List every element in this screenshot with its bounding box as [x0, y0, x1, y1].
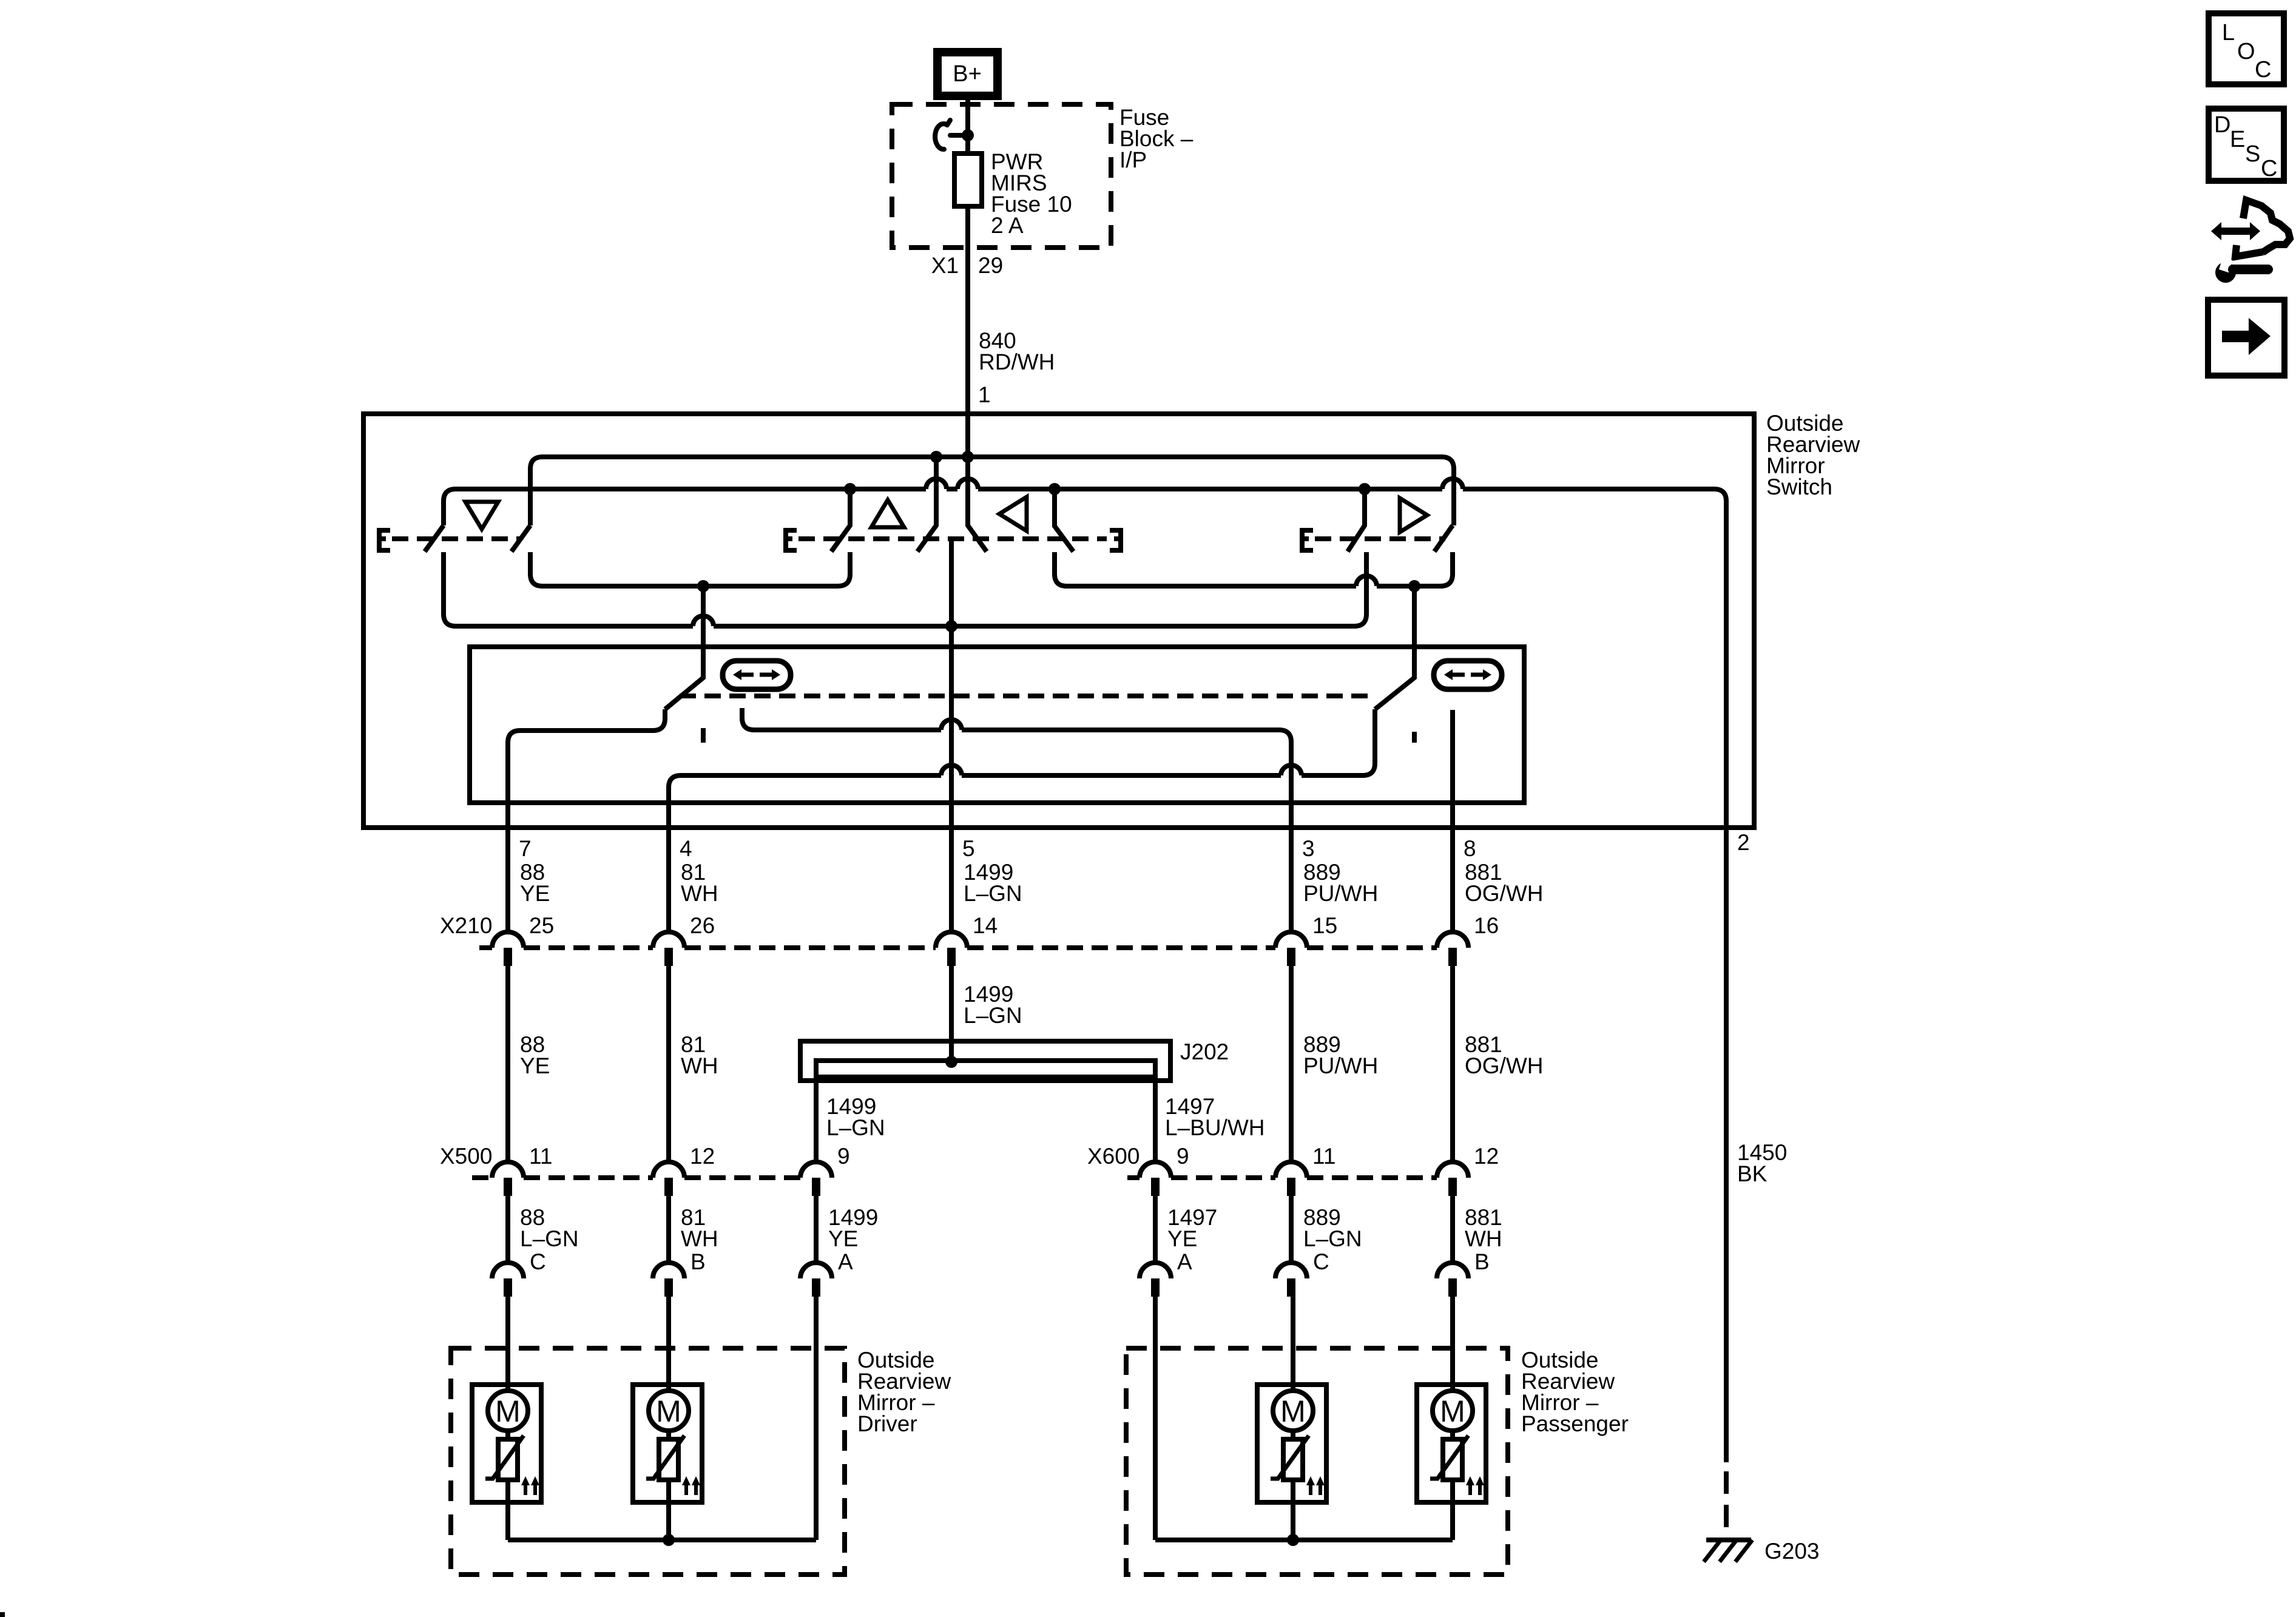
- wire 88 YE label lower: [520, 1032, 550, 1078]
- passenger select slider blade: [1375, 586, 1414, 709]
- inline connector pin B passenger: [1437, 1263, 1468, 1297]
- label Fuse Block - I/P: [1119, 105, 1194, 172]
- svg-text:C: C: [2261, 156, 2277, 181]
- svg-text:X1: X1: [931, 253, 959, 278]
- svg-text:Driver: Driver: [857, 1411, 917, 1436]
- label 840 RD/WH: [979, 328, 1055, 374]
- inline connector pin A passenger: [1140, 1263, 1171, 1297]
- wire 81 WH label: [681, 1205, 718, 1251]
- svg-text:A: A: [1177, 1249, 1192, 1274]
- wire hop line B over feed wire: [957, 479, 978, 489]
- wire hop pin4 rail over pin 5 wire: [941, 765, 962, 775]
- motor M with PTC driver up-down: [472, 1385, 541, 1540]
- svg-text:C: C: [530, 1249, 546, 1274]
- svg-text:25: 25: [529, 913, 554, 938]
- wire B+ down into fuse block: [965, 100, 970, 154]
- junction dot line A left feed blade: [930, 451, 942, 463]
- driver slider open contact stub: [701, 728, 706, 743]
- X500 cavity 12: [653, 1144, 715, 1196]
- wire hop pin3 rail over pin 5 wire: [941, 720, 962, 730]
- svg-text:C: C: [2255, 57, 2271, 83]
- icon next arrow box: [2208, 300, 2284, 376]
- svg-text:4: 4: [680, 836, 692, 861]
- wire 889 PU/WH to X600: [1289, 966, 1294, 1162]
- svg-text:D: D: [2214, 112, 2230, 138]
- connector X600 dashed line: [1127, 1175, 1437, 1180]
- bus tap hook symbol: [935, 124, 968, 149]
- mirror common wire pin 5: [949, 540, 954, 932]
- svg-text:12: 12: [690, 1144, 715, 1169]
- wire 88 YE to X500: [505, 966, 510, 1162]
- svg-text:L–BU/WH: L–BU/WH: [1165, 1115, 1264, 1140]
- dashed mech link middle group: [799, 536, 1107, 541]
- up arrow symbol: [871, 500, 904, 527]
- svg-text:L–GN: L–GN: [964, 1003, 1022, 1028]
- contact rail C left: down blade 2 to up blade: [530, 552, 850, 586]
- dashed mech link select sliders: [680, 694, 1373, 698]
- junction dot passenger bus: [1287, 1534, 1299, 1546]
- connector X500 dashed line: [472, 1175, 800, 1180]
- outside rearview mirror driver dashed box: [451, 1348, 845, 1575]
- motor M with PTC passenger left-right: [1417, 1385, 1486, 1540]
- wire hop rail D over driver slider wire: [693, 616, 714, 626]
- junction dot line B right-select blade: [1359, 483, 1371, 495]
- X210 cavity 26: [653, 913, 715, 966]
- X210 cavity 16: [1437, 913, 1499, 966]
- X600 cavity 9: [1140, 1144, 1189, 1196]
- wire 889 PU/WH label upper: [1303, 860, 1378, 906]
- svg-text:B+: B+: [953, 61, 982, 87]
- feed blade left: [917, 457, 936, 552]
- svg-text:S: S: [2245, 141, 2260, 167]
- svg-text:29: 29: [978, 253, 1003, 278]
- feed blade right: [968, 457, 987, 552]
- svg-text:M: M: [1440, 1394, 1465, 1428]
- svg-text:L–GN: L–GN: [964, 881, 1022, 906]
- wire 881 WH to passenger mirror: [1450, 1196, 1455, 1263]
- wire hop line B over right select blade: [1442, 479, 1463, 489]
- inline connector pin A driver: [800, 1263, 832, 1297]
- junction dot line A at feed wire: [962, 451, 974, 463]
- wire hop line B over left feed blade: [926, 479, 947, 489]
- connector X1 pin 29: [931, 253, 1003, 278]
- contact rail D: down blade 1 to right-select blade 1: [444, 552, 693, 626]
- right arrow symbol: [1400, 498, 1427, 532]
- outside rearview mirror passenger dashed box: [1126, 1348, 1508, 1575]
- svg-text:B: B: [1474, 1249, 1490, 1274]
- left right slider icon driver: [723, 661, 791, 689]
- svg-text:B: B: [690, 1249, 706, 1274]
- wire 1499 L-GN to J202: [949, 966, 954, 1062]
- passenger slider open contact stub: [1412, 732, 1417, 743]
- wire passenger common A: [1153, 1297, 1158, 1540]
- wire into passenger motor 1: [1291, 1297, 1295, 1391]
- svg-text:15: 15: [1312, 913, 1337, 938]
- wire 88 L-GN to driver mirror: [505, 1196, 510, 1263]
- wire driver common A: [814, 1297, 819, 1540]
- inline connector pin C driver: [492, 1263, 524, 1297]
- svg-text:PU/WH: PU/WH: [1303, 1053, 1378, 1078]
- wire 81 WH label upper: [681, 860, 718, 906]
- mech link bracket middle group: [786, 530, 797, 550]
- wire 889 L-GN label: [1303, 1205, 1362, 1251]
- label Outside Rearview Mirror - Driver: [857, 1348, 951, 1436]
- dashed mech link left group: [392, 536, 521, 541]
- left arrow symbol: [999, 497, 1027, 531]
- junction dot J202: [945, 1056, 957, 1068]
- svg-text:YE: YE: [520, 881, 550, 906]
- svg-text:2: 2: [1737, 830, 1750, 855]
- passenger slider select contact to pin 8: [1450, 710, 1455, 932]
- left-select blade: [1055, 489, 1073, 552]
- label 1450 BK: [1737, 1140, 1787, 1186]
- svg-text:YE: YE: [520, 1053, 550, 1078]
- mech link bracket right group: [1302, 530, 1313, 550]
- svg-text:A: A: [838, 1249, 853, 1274]
- wire 1497 YE label: [1167, 1205, 1217, 1251]
- connector X210 dashed line: [479, 945, 1437, 950]
- wire 81 WH to driver mirror: [666, 1196, 671, 1263]
- svg-text:2 A: 2 A: [991, 213, 1024, 238]
- junction dot line B left-select blade: [1048, 483, 1061, 495]
- mech link bracket left group: [379, 530, 390, 550]
- svg-text:X210: X210: [440, 913, 492, 938]
- X500 cavity 11: [492, 1144, 552, 1196]
- svg-text:M: M: [1280, 1394, 1306, 1428]
- X210 cavity 15: [1275, 913, 1337, 966]
- motor M with PTC driver left-right: [633, 1385, 702, 1540]
- X600 cavity 11: [1275, 1144, 1335, 1196]
- bus line A upper contact rail: [530, 457, 1454, 525]
- wire 1497 YE to passenger mirror: [1153, 1196, 1158, 1263]
- svg-text:BK: BK: [1737, 1161, 1768, 1186]
- inline connector pin B driver: [653, 1263, 684, 1297]
- svg-text:X600: X600: [1087, 1144, 1140, 1169]
- driver slider select contact to pin 3 rail: [742, 708, 941, 730]
- svg-text:L–GN: L–GN: [1303, 1226, 1362, 1251]
- wire 1497 L-BU/WH label below J202: [1165, 1094, 1264, 1140]
- wire hop pin4 rail over pin 3 wire: [1281, 765, 1302, 775]
- label Outside Rearview Mirror - Passenger: [1521, 1348, 1629, 1436]
- X600 cavity 12: [1437, 1144, 1499, 1196]
- down arrow symbol: [465, 502, 498, 529]
- wire into passenger motor 2: [1450, 1297, 1455, 1391]
- svg-text:PU/WH: PU/WH: [1303, 881, 1378, 906]
- wire 1450 BK pin 2 to ground: [1724, 828, 1729, 1462]
- right-select blade 1: [1348, 489, 1365, 552]
- svg-text:9: 9: [837, 1144, 850, 1169]
- wire 88 L-GN label: [520, 1205, 579, 1251]
- driver select slider blade: [665, 586, 703, 709]
- svg-text:L–GN: L–GN: [520, 1226, 579, 1251]
- wire into driver motor 1: [505, 1297, 510, 1391]
- wire 889 PU/WH label lower: [1303, 1032, 1378, 1078]
- svg-text:9: 9: [1177, 1144, 1189, 1169]
- right-select blade 2: [1434, 525, 1453, 552]
- wire 881 OG/WH label upper: [1465, 860, 1543, 906]
- svg-text:26: 26: [690, 913, 715, 938]
- svg-text:8: 8: [1464, 836, 1476, 861]
- svg-text:7: 7: [519, 836, 532, 861]
- svg-text:G203: G203: [1764, 1539, 1820, 1564]
- svg-text:I/P: I/P: [1119, 147, 1147, 172]
- splice pack J202: [800, 1041, 1170, 1081]
- svg-text:WH: WH: [681, 1053, 718, 1078]
- svg-text:L–GN: L–GN: [826, 1115, 885, 1140]
- svg-text:1: 1: [978, 382, 991, 407]
- passenger mirror common bus: [1155, 1538, 1453, 1542]
- svg-text:16: 16: [1474, 913, 1499, 938]
- icon adjust hand with wrench: [2211, 200, 2290, 283]
- svg-text:YE: YE: [828, 1226, 858, 1251]
- driver slider output to pin 7: [508, 709, 665, 932]
- page corner mark: [0, 1612, 5, 1617]
- svg-text:M: M: [495, 1394, 521, 1428]
- mech link end bracket middle group: [1110, 530, 1121, 550]
- passenger slider output rail to pin 4: [1302, 709, 1375, 775]
- junction dot driver bus: [663, 1534, 675, 1546]
- junction dot rail C right to passenger slider: [1408, 580, 1420, 592]
- wire 1499 YE to driver mirror: [814, 1196, 819, 1263]
- svg-text:C: C: [1313, 1249, 1329, 1274]
- icon DESC box: [2209, 109, 2284, 181]
- contact rail C right: left-select to right-select blade 2: [1055, 552, 1356, 586]
- junction dot line B up blade: [844, 483, 856, 495]
- svg-text:11: 11: [529, 1144, 552, 1169]
- driver mirror common bus: [508, 1538, 816, 1542]
- svg-text:Switch: Switch: [1766, 474, 1832, 499]
- wire 840 RD/WH from fuse block to switch: [965, 248, 970, 414]
- svg-text:M: M: [656, 1394, 681, 1428]
- svg-text:Passenger: Passenger: [1521, 1411, 1629, 1436]
- svg-text:L: L: [2222, 20, 2235, 46]
- ground symbol G203: [1704, 1540, 1752, 1562]
- fuse PWR MIRS Fuse 10 2A: [954, 149, 1072, 238]
- wire 1499 L-GN label upper: [964, 860, 1022, 906]
- inline connector pin C passenger: [1275, 1263, 1307, 1297]
- wire 889 L-GN to passenger mirror: [1289, 1196, 1294, 1263]
- outside rearview mirror switch box: [363, 414, 1754, 828]
- svg-text:OG/WH: OG/WH: [1465, 1053, 1543, 1078]
- bus line B lower contact rail to pin 2: [444, 489, 926, 525]
- svg-text:WH: WH: [681, 881, 718, 906]
- svg-text:J202: J202: [1180, 1039, 1229, 1064]
- icon LOC box: [2209, 13, 2284, 84]
- wire 1499 L-GN label below J202: [826, 1094, 885, 1140]
- svg-text:14: 14: [973, 913, 998, 938]
- svg-text:O: O: [2237, 39, 2255, 64]
- wire into driver motor 2: [666, 1297, 671, 1391]
- svg-text:WH: WH: [1465, 1226, 1502, 1251]
- svg-text:12: 12: [1474, 1144, 1499, 1169]
- X210 cavity 25: [492, 913, 554, 966]
- junction dot at fuse feed: [962, 129, 974, 141]
- feed wire inside switch down to up/down blades: [965, 414, 970, 525]
- wire 881 WH label: [1465, 1205, 1502, 1251]
- X500 cavity 9: [800, 1144, 850, 1196]
- fuse block dashed box Fuse Block - I/P: [892, 104, 1111, 248]
- wire fuse to connector X1: [965, 206, 970, 248]
- label Outside Rearview Mirror Switch: [1766, 411, 1860, 499]
- wire 88 YE label upper: [520, 860, 550, 906]
- mirror select switch sub-box: [470, 647, 1524, 803]
- svg-text:YE: YE: [1167, 1226, 1197, 1251]
- wire 1499 L-GN from J202 to X500: [814, 1077, 819, 1162]
- svg-text:3: 3: [1302, 836, 1315, 861]
- junction dot rail D at mirror common pin 5 wire: [945, 620, 957, 632]
- up switch blade: [831, 489, 850, 552]
- wire 881 OG/WH to X600: [1450, 966, 1455, 1162]
- svg-text:E: E: [2230, 127, 2245, 152]
- dashed ground lead: [1724, 1471, 1729, 1527]
- wire 1499 YE label: [828, 1205, 878, 1251]
- wire 881 OG/WH label lower: [1465, 1032, 1543, 1078]
- wire 81 WH to X500: [666, 966, 671, 1162]
- motor M with PTC passenger up-down: [1257, 1385, 1326, 1540]
- wire 1497 L-BU/WH from J202 to X600: [1153, 1077, 1158, 1162]
- svg-text:RD/WH: RD/WH: [979, 349, 1055, 374]
- wire 1499 L-GN label above J202: [964, 982, 1022, 1028]
- left right slider icon passenger: [1434, 661, 1502, 689]
- svg-text:WH: WH: [681, 1226, 718, 1251]
- svg-text:5: 5: [962, 836, 975, 861]
- battery feed terminal B+: [937, 52, 998, 96]
- dashed mech link right group: [1315, 536, 1445, 541]
- down switch blade 2: [512, 525, 530, 552]
- wire hop rail C right over right-select blade 1 stub: [1356, 576, 1377, 586]
- wire 81 WH label lower: [681, 1032, 718, 1078]
- svg-text:OG/WH: OG/WH: [1465, 881, 1543, 906]
- svg-text:X500: X500: [440, 1144, 492, 1169]
- X210 cavity 14: [936, 913, 998, 966]
- down switch blade 1: [425, 525, 444, 552]
- junction dot rail C left to driver slider: [697, 580, 709, 592]
- svg-text:11: 11: [1312, 1144, 1335, 1169]
